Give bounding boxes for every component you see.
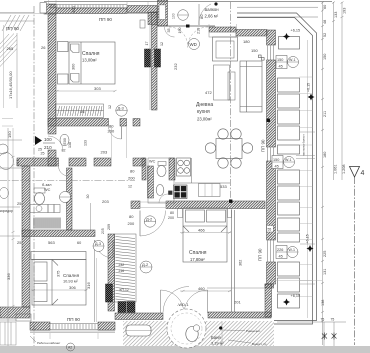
- svg-text:52: 52: [323, 33, 327, 37]
- svg-text:коридор: коридор: [0, 209, 13, 213]
- corner white box: [40, 3, 47, 13]
- svg-text:48: 48: [323, 20, 327, 24]
- svg-text:210: 210: [44, 145, 52, 150]
- svg-text:W-1: W-1: [289, 248, 296, 252]
- terrace outline top: [237, 13, 317, 324]
- window tag 1: [276, 56, 299, 69]
- svg-text:17: 17: [145, 42, 149, 46]
- rainpipe symbol 1: [322, 333, 327, 340]
- svg-text:226: 226: [277, 248, 283, 252]
- double door arcs: [161, 290, 185, 314]
- WD circle: [189, 39, 200, 50]
- lintel lines: [140, 201, 166, 203]
- right wall hatch segment 1: [267, 30, 276, 45]
- radiator bath1: [34, 218, 60, 229]
- wall bottom-left: [0, 307, 30, 318]
- shaft block 1: [145, 49, 151, 67]
- balcony door arc: [199, 4, 211, 25]
- level marker 3: [283, 294, 300, 306]
- node dot: [229, 200, 232, 203]
- svg-text:17,80м²: 17,80м²: [190, 257, 205, 262]
- level marker 1: [283, 29, 300, 41]
- drain line: [221, 322, 223, 346]
- entrance arrow: [35, 136, 42, 145]
- svg-text:12: 12: [108, 105, 112, 109]
- svg-text:211: 211: [323, 111, 327, 117]
- svg-text:Спалня: Спалня: [63, 273, 80, 278]
- svg-text:200: 200: [168, 216, 174, 220]
- stairs (neighbor): [0, 13, 34, 109]
- room line bedroom1 top: [56, 13, 148, 15]
- WC2 left wall: [148, 166, 154, 198]
- parapet window bedroom3 bottom: [50, 324, 98, 330]
- upper wall segment: [158, 0, 168, 26]
- armchair: [213, 37, 238, 61]
- svg-text:Д-3: Д-3: [95, 242, 101, 246]
- door arc bedroom1: [109, 126, 122, 139]
- wall central vertical: [152, 12, 158, 110]
- right wall glazing 1: [268, 45, 274, 60]
- svg-text:Баня: Баня: [211, 335, 221, 340]
- svg-text:ПП 90: ПП 90: [67, 317, 80, 322]
- wall bath1 right: [67, 168, 73, 230]
- bed 1: [58, 42, 116, 85]
- svg-text:35: 35: [167, 29, 171, 33]
- svg-text:375: 375: [57, 271, 61, 277]
- bedroom3 right partition: [93, 240, 95, 322]
- wall corridor bottom left: [17, 158, 59, 166]
- hot tub dashed circle: [167, 309, 206, 348]
- svg-text:336: 336: [6, 273, 11, 280]
- dim 460: [180, 290, 231, 292]
- svg-text:10,93 м²: 10,93 м²: [63, 279, 78, 284]
- bathroom door arc: [163, 287, 189, 313]
- wall left below entrance: [48, 150, 56, 166]
- svg-text:1.061: 1.061: [334, 164, 338, 174]
- bathroom walls L: [265, 284, 272, 317]
- svg-text:150: 150: [273, 158, 279, 162]
- right wall hatch segment 3: [267, 161, 276, 240]
- svg-text:200: 200: [108, 129, 115, 134]
- small dark box: [168, 191, 172, 195]
- bedroom2 right wall: [231, 210, 233, 312]
- corridor line: [90, 203, 92, 230]
- toilet bath1: [34, 188, 45, 193]
- svg-text:Спалня: Спалня: [189, 250, 207, 256]
- svg-text:131: 131: [323, 269, 327, 275]
- svg-text:362: 362: [239, 260, 243, 266]
- svg-text:80: 80: [170, 211, 174, 215]
- wall tag 55: [267, 226, 274, 233]
- svg-text:138: 138: [321, 300, 325, 306]
- wall left of terrace door: [115, 313, 163, 320]
- bottom print strip: [0, 346, 370, 353]
- svg-text:ПП 90: ПП 90: [258, 248, 263, 261]
- svg-text:100: 100: [44, 137, 52, 142]
- chairs: [205, 129, 252, 168]
- dim 306: [31, 289, 87, 291]
- svg-text:563: 563: [48, 240, 55, 245]
- svg-text:466: 466: [198, 228, 205, 233]
- right wall glazing 3: [268, 240, 274, 262]
- door arc bath1: [59, 166, 69, 176]
- svg-text:200: 200: [128, 221, 135, 226]
- dining table: [216, 139, 242, 159]
- leader Ринна: [222, 329, 245, 332]
- svg-text:12: 12: [128, 185, 132, 189]
- wall bedroom1 bottom left: [48, 119, 109, 127]
- svg-text:209: 209: [107, 224, 111, 230]
- wall kitchen top: [236, 30, 267, 37]
- neighbor tag: [0, 144, 8, 154]
- svg-text:ПП 90: ПП 90: [99, 17, 112, 22]
- svg-text:25: 25: [17, 240, 22, 245]
- wall balcony bottom: [209, 27, 236, 32]
- svg-text:75: 75: [331, 318, 335, 322]
- wall bedroom2 top stub: [131, 201, 140, 209]
- svg-text:23,00м²: 23,00м²: [197, 117, 212, 122]
- shaft dark left: [106, 284, 113, 302]
- svg-text:60: 60: [77, 241, 81, 245]
- neighbor sink: [0, 188, 9, 199]
- svg-text:533: 533: [220, 184, 227, 189]
- wall left exterior: [22, 166, 30, 307]
- nightstand left: [178, 209, 183, 218]
- svg-text:Д-2: Д-2: [146, 217, 153, 222]
- svg-text:45: 45: [279, 255, 283, 259]
- svg-text:-WD-1: -WD-1: [177, 302, 189, 307]
- entry hall line: [157, 25, 215, 27]
- bed 3: [31, 252, 86, 306]
- wall bedroom1 left: [48, 13, 56, 134]
- svg-text:75: 75: [321, 318, 325, 322]
- svg-text:200: 200: [128, 176, 135, 181]
- svg-text:80: 80: [130, 169, 135, 174]
- door arc entry-living: [165, 27, 175, 37]
- svg-text:46: 46: [80, 109, 85, 114]
- svg-text:55: 55: [268, 228, 272, 232]
- bottom-right rainpipes: [277, 322, 346, 346]
- svg-text:+6,15: +6,15: [291, 294, 301, 298]
- svg-text:кухня: кухня: [197, 109, 210, 115]
- svg-text:225: 225: [323, 251, 327, 257]
- upper landing tag: [178, 10, 189, 21]
- terrace inner line: [307, 40, 309, 318]
- planter bench: [126, 325, 151, 336]
- wall return: [148, 13, 157, 25]
- svg-text:316: 316: [86, 282, 91, 289]
- svg-text:203: 203: [101, 150, 108, 155]
- svg-text:193: 193: [343, 8, 347, 14]
- svg-text:45: 45: [275, 165, 279, 169]
- svg-text:100: 100: [172, 13, 176, 19]
- sink WC2: [156, 185, 164, 196]
- wall bedroom2 top: [166, 201, 265, 209]
- svg-text:203: 203: [102, 199, 109, 204]
- WC2-kitchen wall: [169, 158, 175, 180]
- svg-text:+6,15: +6,15: [291, 29, 301, 33]
- svg-text:30: 30: [86, 195, 90, 199]
- wall pier: [120, 119, 127, 127]
- toilet terrace: [186, 327, 198, 342]
- wall corridor right of wardrobe: [108, 234, 115, 311]
- shaft block 2: [155, 49, 161, 67]
- svg-text:472: 472: [205, 90, 212, 95]
- right wall hatch segment 4: [267, 262, 276, 284]
- svg-text:WC: WC: [149, 160, 156, 164]
- axis line A (dash-dot vertical): [33, 6, 35, 346]
- bed 2: [183, 208, 227, 262]
- svg-text:232: 232: [119, 263, 125, 267]
- svg-text:190: 190: [178, 28, 182, 34]
- svg-text:Дневна: Дневна: [196, 102, 213, 108]
- door arc bedroom2: [140, 211, 166, 237]
- svg-text:45: 45: [279, 65, 283, 69]
- door tag Д3: [116, 105, 127, 116]
- strip joint lines: [271, 77, 322, 297]
- svg-text:настилка балкон: настилка балкон: [302, 134, 306, 156]
- svg-text:205: 205: [101, 228, 105, 234]
- svg-text:201: 201: [234, 300, 241, 305]
- svg-text:Ринна ант.: Ринна ант.: [246, 329, 261, 333]
- svg-text:12: 12: [160, 42, 164, 46]
- wall corridor bottom mid: [94, 158, 111, 166]
- planters column: [278, 37, 300, 309]
- tag bottom: [67, 343, 75, 351]
- svg-text:303: 303: [94, 86, 101, 91]
- svg-text:+6,15: +6,15: [307, 83, 311, 92]
- svg-text:4: 4: [361, 170, 365, 177]
- wardrobe 2: [115, 234, 137, 302]
- tag circle bath door: [60, 192, 71, 203]
- dim 303: [57, 90, 115, 92]
- entry small box: [140, 20, 145, 28]
- svg-text:150: 150: [323, 54, 327, 60]
- corridor verticals: [112, 126, 127, 158]
- dimension column right: [321, 2, 344, 346]
- rainpipe symbol 2: [332, 333, 337, 340]
- svg-text:225: 225: [15, 159, 20, 166]
- vanity bath1: [30, 205, 60, 213]
- kitchen upper cabinets: [209, 32, 236, 37]
- svg-text:219: 219: [197, 28, 201, 34]
- neighbor tub: [0, 153, 14, 170]
- svg-text:Водост. тр.: Водост. тр.: [252, 342, 267, 346]
- svg-text:232: 232: [173, 63, 178, 70]
- window sill lines: [30, 330, 115, 332]
- window tag 3: [276, 246, 298, 259]
- svg-text:13,00м²: 13,00м²: [82, 58, 97, 63]
- wall bedroom3 bottom right piece: [98, 322, 115, 330]
- wall bedroom3 bottom left piece: [30, 322, 50, 330]
- svg-text:17x16,45/30,00: 17x16,45/30,00: [8, 71, 13, 99]
- WC2 door arc: [159, 194, 168, 203]
- node dot right wall: [267, 119, 271, 123]
- neighbor left edge lines: [0, 128, 22, 346]
- door tag Д3 bedroom3: [93, 241, 104, 252]
- strip division lines: [296, 132, 315, 284]
- svg-text:WD: WD: [190, 42, 197, 47]
- extension lines: [0, 0, 237, 339]
- WC2 room: [148, 158, 174, 203]
- entrance door arc: [48, 136, 63, 151]
- level marker 2: [306, 234, 314, 252]
- svg-text:80: 80: [129, 214, 134, 219]
- dark sink unit: [174, 185, 188, 199]
- right wall glazing 2: [268, 147, 274, 161]
- right wall hatch segment 2: [267, 60, 276, 147]
- leader Водосточна: [228, 340, 251, 343]
- planter circle: [193, 325, 199, 331]
- svg-text:133: 133: [334, 12, 338, 18]
- svg-text:133: 133: [84, 140, 88, 146]
- svg-text:3,19 м²: 3,19 м²: [211, 341, 224, 346]
- svg-text:Д-2: Д-2: [142, 262, 149, 267]
- window tag 2: [272, 156, 295, 169]
- balcony slab lines: [237, 6, 318, 8]
- sofa: [240, 61, 262, 112]
- wall corridor bottom right: [133, 158, 145, 166]
- door tag Д2: [144, 216, 155, 227]
- svg-text:60: 60: [323, 5, 327, 9]
- svg-text:25: 25: [38, 148, 42, 152]
- wall corner top-left: [44, 4, 56, 14]
- door arc bedroom3: [95, 240, 113, 258]
- svg-text:Спалня: Спалня: [82, 51, 100, 57]
- svg-text:82: 82: [62, 149, 66, 153]
- terrace hatch: [123, 321, 274, 346]
- nightstand right: [228, 209, 232, 218]
- svg-text:1.208: 1.208: [342, 164, 346, 174]
- svg-text:216: 216: [119, 269, 125, 273]
- stove: [177, 158, 191, 176]
- section marker 4: [350, 167, 360, 178]
- wall under window top: [56, 8, 127, 14]
- svg-text:б-зал: б-зал: [42, 183, 52, 187]
- svg-text:25: 25: [41, 152, 45, 156]
- left dim line: [12, 128, 14, 310]
- bathroom north line: [207, 287, 265, 289]
- svg-text:80: 80: [199, 14, 204, 19]
- svg-text:КП-12: КП-12: [120, 288, 129, 292]
- node dot top: [214, 2, 217, 5]
- svg-text:А2: А2: [68, 346, 72, 350]
- top print line: [44, 1, 332, 2]
- svg-text:306: 306: [69, 285, 76, 290]
- socket symbol: [259, 55, 262, 58]
- svg-text:+6,15: +6,15: [306, 234, 310, 243]
- svg-text:ПП 90: ПП 90: [6, 26, 19, 31]
- shaft boxes bottom: [118, 302, 126, 313]
- svg-text:ПП 90: ПП 90: [261, 139, 266, 152]
- svg-text:180: 180: [243, 39, 250, 44]
- svg-text:300: 300: [72, 64, 76, 70]
- neighbor boxes bottom-left: [16, 314, 31, 321]
- svg-text:26: 26: [41, 45, 46, 50]
- WC2 left wall: [142, 158, 146, 180]
- toilet WC2: [158, 162, 166, 166]
- wall bedroom3 top: [22, 230, 95, 237]
- svg-text:W-1: W-1: [289, 58, 296, 62]
- svg-text:180: 180: [323, 152, 327, 158]
- svg-text:Работен кабинет: Работен кабинет: [37, 341, 61, 345]
- leader kabinet: [30, 336, 36, 342]
- axis line B (dash-dot vertical): [230, 2, 232, 200]
- svg-text:Д-3: Д-3: [118, 106, 125, 111]
- kitchen cabinet row: [199, 184, 221, 197]
- svg-text:E00: E00: [63, 138, 67, 144]
- svg-text:25: 25: [17, 201, 22, 206]
- svg-text:2,66 м²: 2,66 м²: [205, 14, 219, 19]
- svg-text:150: 150: [277, 58, 283, 62]
- counter edge: [191, 158, 193, 183]
- level marker 1b: [307, 83, 315, 101]
- wardrobe 1: [56, 104, 104, 118]
- svg-text:W-1: W-1: [285, 158, 292, 162]
- dim 466: [180, 232, 231, 234]
- svg-text:265: 265: [7, 46, 14, 51]
- tag E00: [60, 134, 69, 146]
- node dot bath: [219, 326, 222, 329]
- svg-text:Балкон: Балкон: [205, 7, 220, 12]
- svg-text:150: 150: [251, 48, 258, 53]
- axis horizontal dash-dot: [0, 180, 135, 182]
- wall piece WC side: [133, 119, 140, 127]
- side table: [214, 65, 230, 100]
- entry hall arcs: [169, 27, 188, 46]
- parapet window bedroom1 top: [49, 5, 127, 8]
- wall top segment: [127, 6, 157, 13]
- door tag Д2b: [140, 261, 152, 273]
